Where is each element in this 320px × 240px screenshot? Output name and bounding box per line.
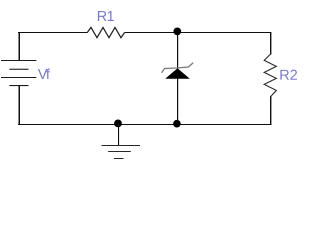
wire: top rail left segment (battery + to R1)	[18, 32, 87, 33]
node: junction dot bottom rail at zener	[173, 120, 181, 128]
wire: right vertical from R2 down to bottom rail	[270, 96, 271, 125]
resistor R1	[87, 27, 124, 37]
zener diode cathode bar with bent ends	[162, 63, 194, 73]
node: junction dot bottom rail at ground	[114, 120, 122, 128]
resistor R2	[264, 54, 276, 97]
wire: left vertical from battery bottom plate down to bottom rail	[19, 86, 21, 126]
wire: zener branch vertical (top rail to bottom rail)	[177, 32, 178, 125]
wire: ground stub	[118, 124, 119, 146]
wire: left vertical from top rail down to battery top plate	[19, 32, 21, 61]
node: junction dot on top rail	[173, 28, 181, 36]
wire: top rail right segment (R1 to top-right corner)	[125, 32, 272, 33]
label R1	[98, 11, 114, 21]
wire: right vertical from top rail down to R2	[270, 32, 271, 55]
label R2	[280, 70, 297, 80]
battery Vf	[1, 60, 36, 86]
wire: bottom rail	[18, 124, 271, 125]
label Vf	[38, 69, 50, 79]
ground	[102, 145, 141, 159]
zener diode anode triangle	[165, 68, 190, 79]
